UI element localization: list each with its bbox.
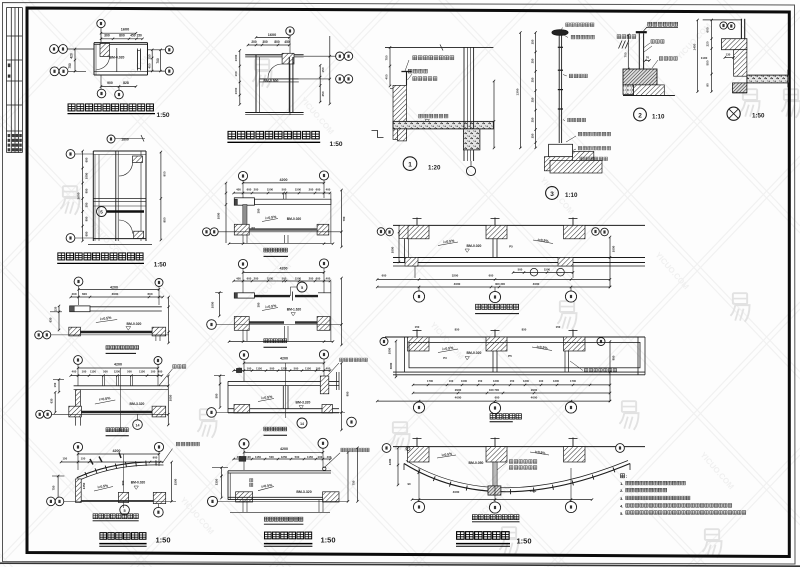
planI1 beam rect [254, 199, 331, 204]
svg-text:850: 850 [162, 217, 166, 222]
planI2 title: floor 2 plan [264, 339, 287, 343]
planJ2 mid wall b [496, 351, 498, 372]
svg-text:1000: 1000 [217, 212, 221, 219]
detail3 leader line c [566, 136, 576, 142]
planH3 slope arrow [94, 487, 113, 492]
svg-text:800: 800 [119, 34, 125, 38]
planI1 mid bottom stub a [284, 235, 286, 243]
planH2 post stub a [102, 376, 104, 386]
plan G axis line 12 [75, 237, 93, 239]
planJ1 bubble leader b [494, 287, 496, 291]
svg-text:550: 550 [706, 60, 710, 65]
planJ3 big title underline 1 [456, 543, 510, 545]
svg-text:BM-0.020: BM-0.020 [127, 322, 142, 326]
planJ1 inner dim bubble b [557, 268, 565, 276]
planH2 left small dim [58, 380, 60, 393]
planJ1 axis bubble 10 bottom [489, 291, 500, 302]
plan J3 group: BING balcony curved wide plan [382, 438, 645, 547]
planJ1 axis bubble left b [386, 228, 394, 236]
planH3 boxed label: floors 4-12 plan [93, 514, 138, 519]
svg-text:1500: 1500 [295, 276, 302, 280]
planH2 slope arrow [95, 400, 115, 404]
planH2 dim line row1 [78, 367, 158, 369]
detail3 post line 1 [558, 35, 560, 143]
svg-text:1200: 1200 [388, 458, 392, 465]
planJ1 band hatch right [558, 258, 573, 267]
planJ2 dim row3 [377, 400, 610, 402]
svg-text:P5: P5 [509, 245, 513, 249]
detail2 top leader underline [647, 27, 679, 29]
planH2 right hatched column [152, 406, 166, 417]
planJ3 axis bubble 11b bottom [565, 501, 576, 512]
planI3 leader text embedded parts [340, 358, 368, 362]
planH2 left dim lower [54, 392, 56, 412]
detail2 base lower band [634, 85, 665, 96]
planJ1 bubble leader a [418, 287, 420, 291]
planI1 axis bubble 10 [238, 171, 247, 180]
plan B axis bubble right pair2 b [344, 75, 352, 83]
plan A bottom wall line [94, 74, 148, 76]
planJ3 slope arrow 1 [437, 455, 456, 458]
planJ3 sagging outer arc [404, 464, 630, 492]
planJ1 column hatch left [408, 225, 430, 238]
planI4 axis line [218, 500, 349, 502]
detail4 wall below hatched [734, 50, 747, 76]
planI2 mid bottom stub b [287, 326, 289, 341]
plan G right wall line 1 [140, 151, 142, 241]
plan A axis bubble B (left) [50, 67, 59, 76]
svg-text:1:50: 1:50 [329, 141, 342, 148]
svg-text:450: 450 [284, 40, 290, 44]
detail4 wall bottom line [733, 92, 747, 94]
svg-text:1000: 1000 [234, 54, 238, 61]
svg-text:BM-0.020: BM-0.020 [467, 351, 482, 355]
planI3 left edge line [227, 381, 229, 413]
plan G axis bubble 11 (left top) [66, 150, 75, 159]
detail2 leader line 3 [652, 60, 658, 68]
planI4 bottom stub c [318, 500, 320, 512]
svg-text:600: 600 [84, 231, 88, 236]
planH3 axis bubble 4 top-right [154, 442, 163, 451]
planJ2 level triangle [465, 357, 469, 360]
planH2 top band line 1 [74, 385, 169, 387]
planI2 balloon 5 [297, 282, 307, 292]
planI1 post stub b [285, 193, 287, 199]
plan A railing plan rect [137, 51, 140, 69]
plan B axis bubble right pair2 a [336, 75, 344, 83]
planI2 front edge thick b [295, 321, 317, 323]
planH2 left tick a [53, 379, 64, 381]
svg-text:BM-0.050: BM-0.050 [469, 461, 484, 465]
planI3 ext left [243, 360, 245, 381]
planI3 bottom band line 1 [228, 408, 339, 410]
svg-text:1:50: 1:50 [752, 113, 765, 120]
svg-text:150: 150 [53, 382, 57, 387]
svg-text:1450: 1450 [693, 43, 697, 50]
svg-text:4000: 4000 [454, 282, 461, 286]
plan I3 group: middle column floor 3 plan [207, 350, 368, 435]
svg-text:1000: 1000 [84, 172, 88, 179]
planI4 axis bubble 12 [318, 438, 328, 448]
planJ3 slope arrow 2 [530, 452, 549, 455]
planJ2 leader line [570, 361, 583, 371]
planH1 ext line left [78, 286, 80, 305]
detail1 leader text 100x4 steel plate [413, 56, 454, 60]
planH2 bottom stub a [75, 417, 77, 426]
planI2 ext right [323, 268, 325, 293]
svg-text:100: 100 [449, 379, 454, 383]
planJ2 slope arrow 1 [438, 349, 458, 353]
plan B mid floor line 2 [260, 81, 299, 83]
planI4 top band line 2 [228, 472, 331, 474]
planH1 right dim line [168, 297, 170, 343]
plan G group: DING balcony plan 1:50 [57, 135, 167, 269]
plan B left wall outer [255, 55, 257, 113]
planI1 post stub a [283, 193, 285, 199]
plan A hatched wall corner [100, 44, 110, 57]
svg-text:2.: 2. [620, 489, 623, 493]
plan B bottom line [245, 112, 303, 114]
plan G mid floor line 3 [93, 205, 146, 207]
detail4 small dim 130 [725, 57, 734, 59]
planJ1 bubble leader c [570, 287, 572, 291]
svg-text:2: 2 [638, 112, 642, 119]
svg-text:630: 630 [49, 398, 53, 403]
plan G axis bubble top [107, 135, 115, 143]
plan B left dim line [239, 51, 241, 105]
svg-text:80: 80 [706, 83, 710, 87]
svg-text:500: 500 [103, 370, 108, 374]
svg-text:100 700: 100 700 [489, 388, 500, 392]
plan B axis line to right pair2 [299, 78, 330, 80]
planI4 right dim a [347, 452, 349, 501]
detail3 leader text handrail [571, 35, 594, 39]
svg-text:1000: 1000 [391, 246, 395, 253]
planH1 axis line horizontal [51, 334, 169, 336]
detail3 post joint [558, 46, 563, 48]
plan G top dim tick [141, 135, 144, 142]
svg-text:1500: 1500 [544, 267, 551, 271]
planI3 right stub b [338, 372, 340, 390]
svg-text:3000: 3000 [389, 362, 393, 369]
title strip text marks [8, 64, 11, 68]
planI4 big title: YI balcony plan [264, 532, 311, 539]
planI1 ext right [323, 180, 325, 198]
svg-text:1:50: 1:50 [156, 112, 169, 119]
svg-text:120: 120 [54, 306, 58, 311]
plan A wall top outer line [94, 42, 148, 44]
detail2 right leader text M8 [651, 40, 664, 44]
note 1 text [626, 481, 685, 485]
plan B left wall inner [259, 57, 261, 113]
detail4 axis bubble M [720, 22, 727, 29]
planI3 mid wall a [282, 386, 284, 409]
detail1 small rail post [406, 72, 408, 86]
planI1 bottom dim line [229, 243, 333, 245]
plan G hatched block top-right [133, 156, 143, 163]
planJ1 mid body line b [496, 239, 498, 258]
detail2 ground line [623, 95, 675, 97]
planH3 axis bubble 12 top-left [73, 442, 82, 451]
detail3 base step [573, 151, 594, 162]
planI2 front edge thick a [249, 321, 284, 323]
detail3 label circle [546, 187, 559, 200]
plan H1 group: floors 1-2 plan [35, 277, 170, 353]
plan B dim line row2 [248, 44, 289, 46]
planH1 left hatched column [69, 327, 81, 336]
planI2 slope arrow [262, 308, 278, 311]
planJ2 axis bubble left [380, 338, 388, 346]
svg-text:1000: 1000 [612, 245, 616, 252]
plan A inner partition line [116, 48, 118, 72]
planH2 leader text iron railing [173, 365, 186, 369]
svg-text:150: 150 [81, 456, 86, 460]
detail4 segment dim line [711, 20, 713, 92]
svg-text:150: 150 [415, 325, 420, 329]
svg-text:3000: 3000 [112, 292, 119, 296]
planH1 dim line row2 [71, 296, 163, 298]
svg-text:1800: 1800 [121, 138, 129, 142]
planH2 post stub b [118, 376, 120, 386]
svg-text:850: 850 [455, 328, 460, 332]
detail3 overall dim line [519, 33, 521, 148]
planH3 bottom edge line [81, 500, 153, 502]
planI1 axis bubble 13 [319, 171, 328, 180]
planI1 right hatched column [317, 224, 329, 235]
planI1 slope arrow [262, 219, 278, 222]
plan G bottom wall line [93, 238, 146, 240]
plan B bottom line 2 [245, 114, 303, 116]
plan G top wall line [93, 150, 146, 152]
planI3 ext right [323, 359, 325, 376]
planI2 bottom stub b [246, 330, 248, 341]
planJ2 right wall b [568, 351, 570, 372]
planI4 ext left [243, 449, 245, 470]
planH1 title underline [106, 352, 136, 354]
svg-text:200: 200 [251, 40, 257, 44]
planI4 left hatched block [236, 492, 253, 502]
planH3 bubble leader [157, 504, 159, 508]
planJ3 bubble leader a [418, 468, 420, 501]
detail 2 group: railing post base 1:10 [617, 22, 678, 121]
planH3 boxed label underline [93, 520, 139, 522]
planJ2 top wall line [385, 336, 645, 338]
detail3 leader text bolt [578, 146, 610, 150]
svg-text:500: 500 [214, 393, 218, 398]
planI2 axis bubble 13 [319, 259, 328, 268]
planJ3 big title underline 2 [456, 545, 510, 547]
planJ2 column stub above [572, 330, 574, 338]
planJ2 right edge b [644, 337, 646, 375]
detail3 post joint [558, 108, 563, 110]
plan A left wall line [93, 43, 95, 75]
planJ3 column stub tee [569, 438, 578, 440]
svg-text:3600: 3600 [77, 192, 81, 199]
plan J1 group: right column floors 1-2 wide plan [376, 218, 645, 314]
planI2 right band line [318, 292, 331, 294]
detail 1 group: balcony section 1:20 [372, 45, 496, 176]
planH3 right hatched block [153, 492, 165, 503]
planH3 bold tick b [99, 457, 102, 463]
note 5 text [626, 511, 746, 515]
plan G hatched block bottom-right [134, 231, 144, 238]
planI4 left wall line 2 [229, 473, 231, 500]
planI1 title underline [264, 255, 289, 257]
svg-text:600: 600 [247, 276, 252, 280]
svg-text:5: 5 [124, 509, 126, 513]
planJ1 column stub above [416, 218, 418, 226]
svg-text:250: 250 [531, 58, 535, 63]
svg-text:150: 150 [531, 133, 535, 138]
planI3 mid wall b [287, 386, 289, 409]
watermark stripe letters [88, 21, 735, 536]
planI3 top band line 1 [228, 380, 339, 382]
planH1 right stub 1 [155, 336, 157, 341]
general notes block [620, 474, 746, 516]
detail2 handrail cap [636, 31, 647, 33]
svg-text:220: 220 [706, 41, 710, 46]
plan A dim line row1 [101, 32, 136, 34]
planI1 left hatched column [234, 224, 249, 235]
planJ3 column stub tee [413, 438, 422, 440]
svg-text:400: 400 [72, 370, 77, 374]
planJ3 boxed label: floors 4-12 plan [472, 515, 519, 520]
detail1 level triangle [425, 120, 429, 123]
planH3 left hatched wall [76, 479, 82, 503]
detail1 wall below slab concrete [463, 129, 480, 150]
svg-text:150: 150 [556, 325, 561, 329]
svg-text:4000: 4000 [533, 282, 540, 286]
plan B title: WU balcony 1~12 floor plan [228, 131, 319, 139]
planJ2 left dim line [395, 341, 397, 377]
planI1 right edge line [330, 193, 332, 243]
planH1 axis bubble 4 top-right [155, 279, 163, 287]
planI4 bottom stub d [322, 500, 324, 512]
svg-text:3: 3 [550, 191, 554, 198]
detail2 weld hatch stroke [622, 41, 626, 49]
planI2 bottom stub a [242, 330, 244, 341]
planI4 bottom band line 1 [228, 496, 323, 498]
planI1 left dim line [225, 183, 227, 243]
planJ1 mid body line a [492, 239, 494, 258]
plan G top dim line [115, 138, 145, 140]
planJ1 dim line 2 [377, 286, 610, 288]
detail2 weld hatch stroke [625, 41, 629, 49]
planI3 center section line [285, 363, 287, 418]
svg-text:4000: 4000 [530, 489, 537, 493]
planI2 dim row2 [234, 280, 330, 282]
planH3 big title: JIA balcony plan [100, 533, 146, 540]
plan B axis bubble right pair1 b [344, 52, 352, 60]
svg-text:600: 600 [495, 396, 500, 400]
planH3 big title underline 1 [99, 543, 146, 545]
planJ3 right arc end stub [629, 464, 631, 471]
svg-text:450: 450 [321, 91, 325, 96]
detail2 label circle [634, 108, 647, 121]
plan G axis bubble 12 (left bottom) [66, 234, 75, 243]
bottom sheet edge line [0, 563, 800, 566]
planJ1 ext below b [572, 266, 574, 278]
plan B wall top line [245, 54, 303, 56]
svg-text:4200: 4200 [110, 285, 118, 289]
svg-text:900: 900 [121, 480, 125, 485]
svg-text:600: 600 [147, 292, 152, 296]
planI1 bottom stub a [242, 235, 244, 243]
svg-text:1500: 1500 [267, 188, 274, 192]
planI2 balloon leader [291, 287, 298, 296]
planI2 right edge line [330, 281, 332, 341]
plan A axis line GK [67, 48, 94, 50]
planH3 mid hatched block [118, 492, 128, 502]
detail2 post line 1 [638, 33, 640, 69]
svg-text:14: 14 [136, 424, 140, 428]
planI4 right hatched block [323, 492, 339, 502]
planJ3 bubble leader c [570, 468, 572, 501]
planJ2 column stub above [416, 330, 418, 338]
planJ1 axis bubble 15 bottom [565, 291, 576, 302]
planJ2 inner body rect [409, 342, 640, 367]
planI3 level triangle [299, 406, 303, 409]
svg-text:P2: P2 [252, 226, 256, 230]
planI2 mid bottom stub a [284, 326, 286, 341]
planI2 stub dark mark [234, 293, 237, 298]
planI4 leader joint circle [323, 467, 326, 470]
detail1 wall line 3 [469, 47, 471, 161]
planH3 center section line [123, 454, 125, 508]
plan A axis bubble K (left) [59, 45, 68, 54]
planJ2 column hatch left [408, 337, 430, 351]
detail3 base hatched block [544, 157, 578, 171]
planI4 dim row2 [234, 458, 331, 460]
svg-text:100: 100 [82, 370, 87, 374]
planI4 big title underline 2 [264, 545, 313, 547]
svg-text:200: 200 [309, 276, 314, 280]
detail4 label circle [727, 107, 740, 120]
planJ3 column stub above [494, 438, 496, 447]
planH2 axis line [52, 413, 168, 415]
svg-text:4200: 4200 [114, 362, 122, 366]
planI3 left tick [214, 375, 225, 377]
detail3 anchor box [549, 144, 573, 156]
planH1 axis bubble 2 top-left [74, 277, 83, 286]
svg-text:400: 400 [236, 188, 241, 192]
svg-text:450: 450 [148, 63, 152, 68]
svg-text:1:50: 1:50 [320, 536, 335, 545]
detail3 post joint [558, 69, 563, 71]
svg-text:1: 1 [408, 161, 412, 168]
plan H3 group: JIA balcony floors 4-12 plan [47, 442, 200, 546]
svg-text:1150: 1150 [255, 455, 262, 459]
svg-text:600: 600 [84, 157, 88, 162]
planI2 title underline [264, 346, 288, 348]
svg-text:4200: 4200 [280, 267, 288, 271]
planI3 leader line [325, 363, 339, 379]
svg-text:BM-0.020: BM-0.020 [467, 244, 482, 248]
svg-text:BM-0.020: BM-0.020 [131, 481, 146, 485]
planI2 left hatched column [234, 317, 249, 331]
svg-text:100: 100 [318, 455, 323, 459]
plan A axis bubble A (right top) [165, 46, 173, 54]
svg-text:70: 70 [646, 56, 650, 60]
svg-text:BM-3.320: BM-3.320 [296, 400, 311, 404]
svg-text:1:10: 1:10 [565, 192, 578, 199]
planI3 axis line [216, 411, 345, 413]
svg-text:400: 400 [385, 74, 389, 79]
planI4 boxed label underline [264, 523, 304, 525]
plan B wall top inner line [245, 56, 303, 58]
planH2 bottom balloon [133, 420, 143, 430]
planJ3 boxed label underline [472, 521, 520, 523]
